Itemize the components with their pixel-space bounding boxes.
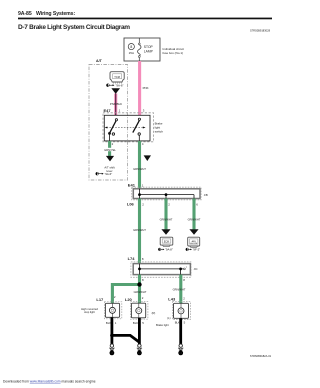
svg-text:switch: switch [155, 130, 164, 134]
svg-text:PNK/BLK: PNK/BLK [110, 102, 122, 106]
svg-text:GRN/WHT: GRN/WHT [133, 167, 146, 171]
svg-text:L43: L43 [168, 296, 176, 301]
svg-text:L06: L06 [127, 202, 135, 207]
svg-text:S7RS0B9182A-01: S7RS0B9182A-01 [250, 354, 272, 358]
svg-text:“9F-2”: “9F-2” [193, 248, 201, 252]
svg-text:5: 5 [142, 321, 144, 325]
svg-text:“9A-8”: “9A-8” [165, 248, 173, 252]
svg-text:Wiring Systems:: Wiring Systems: [36, 11, 75, 17]
svg-text:2: 2 [183, 297, 185, 301]
svg-text:3: 3 [143, 108, 145, 112]
svg-text:1: 1 [115, 321, 117, 325]
svg-text:TCM: TCM [114, 75, 120, 79]
svg-text:6: 6 [196, 202, 198, 206]
svg-text:GRN/WHT: GRN/WHT [134, 290, 147, 294]
svg-text:1: 1 [119, 108, 121, 112]
svg-text:Brake light: Brake light [156, 323, 169, 327]
svg-text:BLK: BLK [133, 321, 138, 325]
svg-text:8: 8 [142, 278, 144, 282]
svg-text:High mounted: High mounted [81, 307, 98, 311]
svg-text:HU/CM: HU/CM [190, 243, 197, 245]
svg-text:9A-85: 9A-85 [18, 11, 32, 17]
svg-text:GRN/WHT: GRN/WHT [173, 288, 186, 292]
svg-text:2: 2 [142, 296, 144, 300]
svg-text:LAMP: LAMP [144, 49, 154, 53]
svg-text:8: 8 [142, 257, 144, 261]
svg-text:“9A-6”: “9A-6” [104, 172, 112, 176]
svg-text:fuse box (No.1): fuse box (No.1) [163, 51, 184, 55]
svg-text:S7RS0B9183028: S7RS0B9183028 [250, 29, 271, 33]
svg-text:stop light: stop light [84, 310, 95, 314]
svg-text:E47: E47 [104, 108, 112, 113]
svg-text:2: 2 [168, 202, 170, 206]
svg-text:PNK: PNK [143, 86, 149, 90]
svg-text:L17: L17 [96, 297, 104, 302]
svg-text:(L): (L) [167, 316, 170, 320]
svg-text:BLK: BLK [175, 321, 180, 325]
svg-text:L74: L74 [128, 256, 136, 261]
svg-text:GRN/WHT: GRN/WHT [188, 218, 201, 222]
svg-text:15A: 15A [129, 51, 134, 55]
svg-text:A/T: A/T [96, 59, 103, 63]
svg-text:5: 5 [184, 321, 186, 325]
svg-text:J/B: J/B [204, 193, 208, 197]
svg-text:BLK: BLK [106, 321, 111, 325]
svg-text:D-7 Brake Light System Circuit: D-7 Brake Light System Circuit Diagram [18, 24, 130, 31]
svg-text:J/C: J/C [194, 267, 198, 271]
svg-text:2: 2 [112, 142, 114, 146]
svg-text:8: 8 [183, 278, 185, 282]
svg-text:GRN/WHT: GRN/WHT [133, 228, 146, 232]
svg-text:GRN/WHT: GRN/WHT [160, 218, 173, 222]
svg-text:4: 4 [142, 142, 144, 146]
svg-text:2: 2 [114, 295, 116, 299]
svg-text:GRN/YEL: GRN/YEL [104, 148, 116, 152]
svg-text:Downloaded from www.Manualslib: Downloaded from www.Manualslib.com manua… [3, 380, 96, 384]
svg-text:2: 2 [142, 202, 144, 206]
svg-text:“9A-6”: “9A-6” [115, 83, 123, 87]
svg-text:8: 8 [130, 45, 132, 49]
svg-text:(R): (R) [152, 311, 156, 315]
svg-text:ECM: ECM [164, 242, 169, 244]
